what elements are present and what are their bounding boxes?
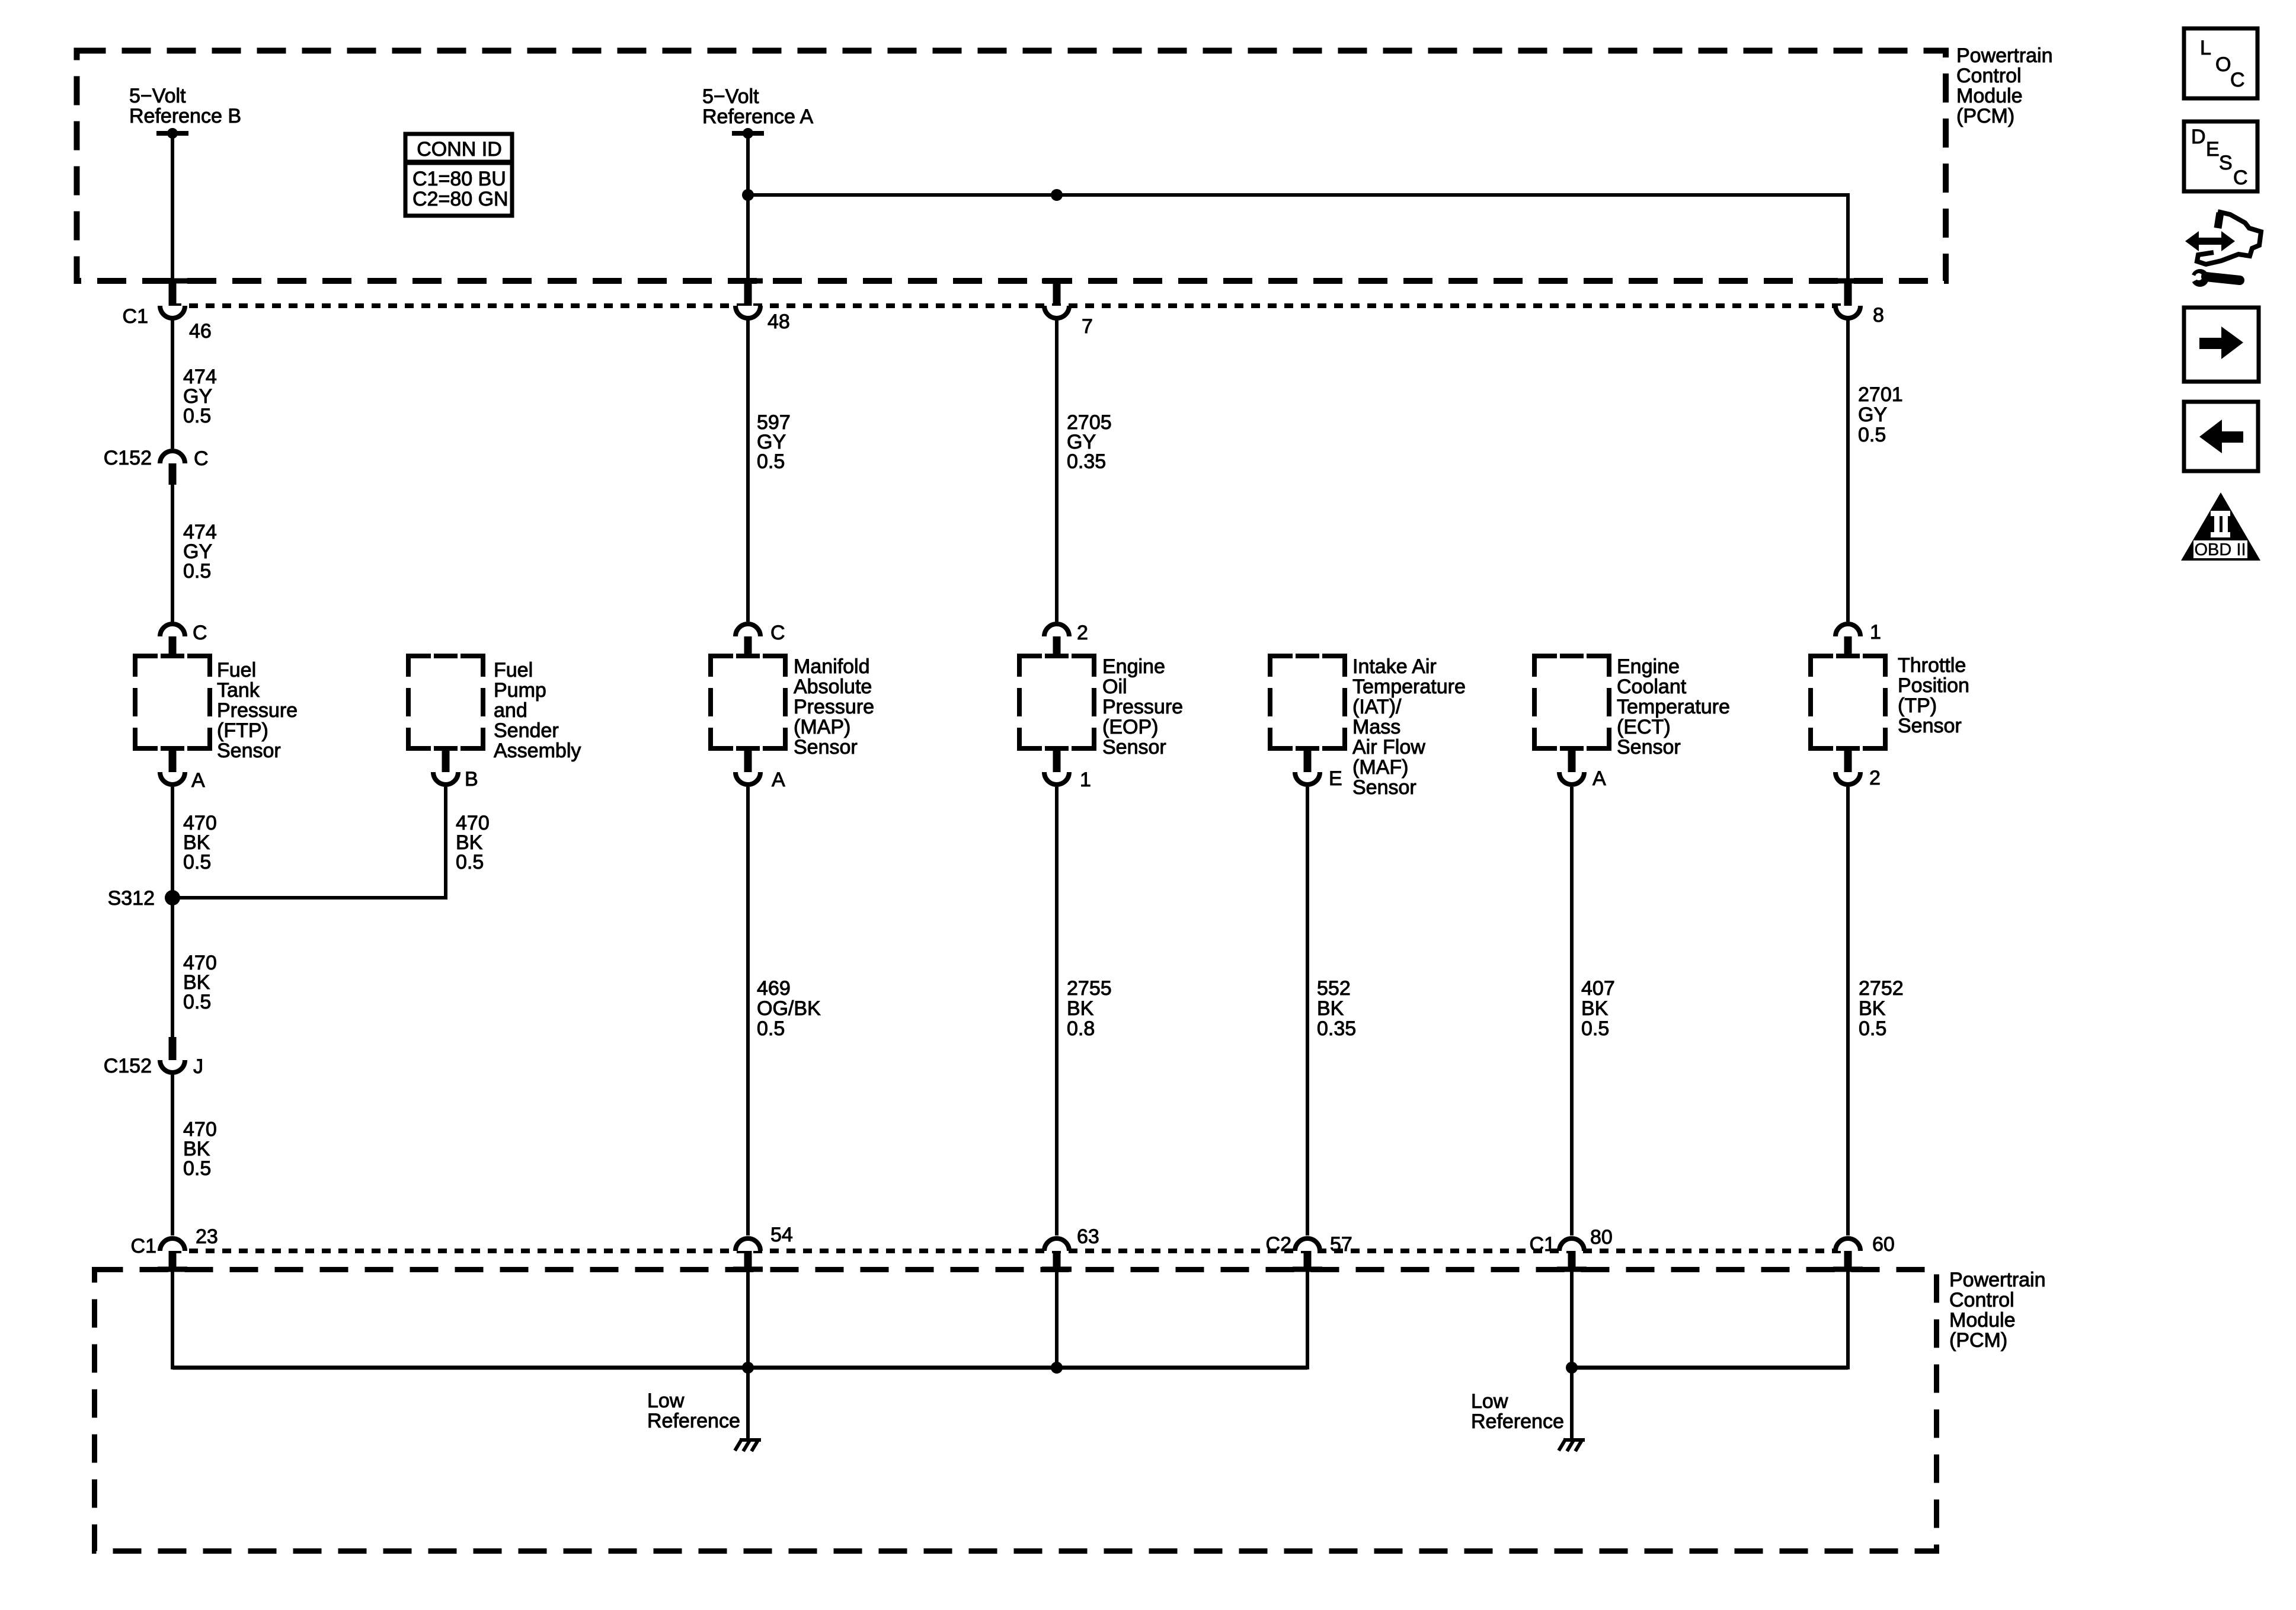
wire 80 to ground bbox=[1570, 1368, 1574, 1439]
svg-text:E: E bbox=[2206, 138, 2220, 161]
IAT MAF sensor box bbox=[1270, 654, 1345, 751]
svg-text:Reference: Reference bbox=[1471, 1410, 1564, 1433]
svg-text:Sensor: Sensor bbox=[1352, 776, 1416, 799]
ground (right chassis) bbox=[1559, 1439, 1585, 1451]
terminal 5V ref B bbox=[156, 128, 188, 139]
wire 2701 GY bbox=[1846, 318, 1850, 622]
svg-text:Throttle: Throttle bbox=[1898, 654, 1966, 677]
TP sensor top pin 1 bbox=[1835, 621, 1881, 658]
svg-text:Mass: Mass bbox=[1352, 716, 1400, 738]
pin 23 connector C1 bbox=[131, 1225, 218, 1272]
svg-text:Sensor: Sensor bbox=[794, 736, 858, 758]
wire 597 GY bbox=[746, 318, 750, 622]
svg-text:0.35: 0.35 bbox=[1317, 1017, 1356, 1040]
svg-text:D: D bbox=[2191, 126, 2206, 148]
label C1 top bbox=[123, 305, 148, 328]
svg-text:B: B bbox=[465, 768, 478, 790]
wire pin63 to bus bbox=[1055, 1269, 1059, 1368]
svg-text:0.5: 0.5 bbox=[456, 851, 484, 873]
wire 552 BK bbox=[1306, 787, 1309, 1235]
EOP sensor label bbox=[1102, 655, 1183, 758]
svg-text:(ECT): (ECT) bbox=[1617, 716, 1671, 738]
svg-text:(TP): (TP) bbox=[1898, 694, 1937, 717]
label Low Reference (right) bbox=[1471, 1390, 1564, 1433]
svg-text:63: 63 bbox=[1077, 1225, 1099, 1248]
wire 469 OG/BK bbox=[746, 787, 750, 1235]
wire 5V ref B vertical bbox=[171, 133, 174, 281]
wire label 2701 GY 0.5 bbox=[1858, 383, 1903, 446]
wire label 470 BK 0.5 (pump) bbox=[456, 812, 490, 873]
svg-text:Absolute: Absolute bbox=[794, 676, 872, 698]
svg-text:C: C bbox=[2230, 69, 2245, 91]
svg-text:C152: C152 bbox=[104, 1055, 152, 1077]
icon OBD II triangle bbox=[2181, 492, 2260, 561]
svg-text:Pressure: Pressure bbox=[794, 696, 874, 718]
wire label 470 BK 0.5 (FTP) bbox=[183, 812, 217, 873]
svg-text:8: 8 bbox=[1873, 304, 1884, 327]
svg-text:1: 1 bbox=[1870, 621, 1881, 644]
svg-text:2701: 2701 bbox=[1858, 383, 1903, 406]
svg-text:Reference: Reference bbox=[647, 1410, 740, 1432]
junction dot 54-bus bbox=[742, 1362, 754, 1374]
icon LOC box bbox=[2184, 28, 2257, 98]
svg-text:Pressure: Pressure bbox=[1102, 696, 1183, 718]
svg-text:5−Volt: 5−Volt bbox=[702, 85, 759, 108]
svg-text:Sensor: Sensor bbox=[1898, 715, 1962, 737]
wire label 2752 BK 0.5 bbox=[1859, 977, 1904, 1040]
svg-text:C1: C1 bbox=[1530, 1233, 1555, 1256]
svg-text:Sensor: Sensor bbox=[1617, 736, 1681, 758]
wire 470 BK below S312 bbox=[171, 898, 174, 1037]
svg-text:Low: Low bbox=[647, 1390, 685, 1412]
wire pin60 to bus bbox=[1846, 1269, 1850, 1369]
MAP sensor top pin C bbox=[736, 622, 785, 658]
wire 474 GY segment 2 bbox=[171, 485, 174, 622]
svg-text:Control: Control bbox=[1949, 1289, 2014, 1311]
PCM bottom label bbox=[1949, 1269, 2046, 1352]
svg-text:Sender: Sender bbox=[494, 719, 559, 742]
wire low-ref bus right bbox=[1572, 1366, 1848, 1370]
TP sensor box bbox=[1811, 654, 1885, 751]
svg-text:0.5: 0.5 bbox=[183, 560, 211, 582]
junction dot at 7 drop bbox=[1051, 189, 1063, 201]
svg-text:0.5: 0.5 bbox=[1858, 424, 1886, 446]
junction dot 80-bus bbox=[1566, 1362, 1578, 1374]
svg-text:469: 469 bbox=[757, 977, 791, 1000]
wire 2705 GY bbox=[1055, 318, 1059, 622]
pin 46 connector C1 bbox=[158, 279, 212, 343]
connector line C1 (top, dotted) bbox=[172, 303, 1848, 308]
wire pin80 to bus bbox=[1570, 1269, 1574, 1368]
svg-text:BK: BK bbox=[1859, 997, 1886, 1020]
svg-text:C: C bbox=[770, 622, 785, 644]
svg-text:Sensor: Sensor bbox=[217, 740, 281, 762]
FTP sensor bottom pin A bbox=[160, 748, 205, 792]
net label 5-Volt Reference A bbox=[702, 85, 813, 128]
connector line C1 (bottom, dotted) bbox=[172, 1249, 1848, 1253]
wire label 2705 GY 0.35 bbox=[1067, 411, 1112, 473]
svg-text:Temperature: Temperature bbox=[1352, 676, 1466, 698]
svg-text:Reference A: Reference A bbox=[702, 105, 813, 128]
svg-text:Pump: Pump bbox=[494, 679, 546, 702]
TP sensor bottom pin 2 bbox=[1835, 748, 1881, 789]
wire label 470 BK 0.5 (low) bbox=[183, 1118, 217, 1180]
svg-text:2752: 2752 bbox=[1859, 977, 1904, 1000]
connector C152 pin C bbox=[104, 447, 209, 485]
svg-text:Powertrain: Powertrain bbox=[1956, 44, 2053, 67]
wire 2752 BK bbox=[1846, 787, 1850, 1235]
svg-text:57: 57 bbox=[1330, 1233, 1352, 1256]
svg-text:48: 48 bbox=[768, 311, 790, 333]
svg-text:J: J bbox=[193, 1055, 203, 1078]
icon left-arrow box bbox=[2184, 402, 2258, 471]
svg-text:Module: Module bbox=[1949, 1309, 2016, 1331]
MAP sensor bottom pin A bbox=[736, 748, 785, 791]
svg-text:Oil: Oil bbox=[1102, 676, 1127, 698]
splice S312 bbox=[108, 887, 180, 910]
svg-text:54: 54 bbox=[770, 1224, 793, 1246]
wire label 597 GY 0.5 bbox=[757, 411, 791, 473]
svg-text:Module: Module bbox=[1956, 85, 2023, 107]
ECT sensor bottom pin A bbox=[1559, 748, 1606, 790]
svg-text:Position: Position bbox=[1898, 674, 1969, 697]
pin 8 connector C1 bbox=[1833, 279, 1884, 327]
svg-text:0.5: 0.5 bbox=[183, 991, 211, 1013]
Fuel Pump box bbox=[408, 654, 483, 751]
svg-text:Coolant: Coolant bbox=[1617, 676, 1687, 698]
PCM top module dashed box bbox=[77, 51, 1946, 281]
svg-text:552: 552 bbox=[1317, 977, 1351, 1000]
svg-text:0.5: 0.5 bbox=[757, 450, 785, 473]
wire 2755 BK bbox=[1055, 787, 1059, 1235]
svg-text:7: 7 bbox=[1082, 315, 1093, 338]
svg-text:BK: BK bbox=[1067, 997, 1094, 1020]
ECT sensor label bbox=[1617, 655, 1730, 758]
svg-text:0.5: 0.5 bbox=[1581, 1017, 1609, 1040]
svg-text:(PCM): (PCM) bbox=[1949, 1329, 2007, 1352]
Fuel Pump bottom pin B bbox=[433, 748, 478, 790]
wire 474 GY segment 1 bbox=[171, 318, 174, 449]
svg-text:0.5: 0.5 bbox=[183, 851, 211, 873]
svg-text:(PCM): (PCM) bbox=[1956, 105, 2014, 127]
CONN ID table bbox=[404, 134, 514, 216]
svg-text:Reference B: Reference B bbox=[129, 105, 241, 127]
IAT sensor bottom pin E bbox=[1295, 748, 1342, 790]
EOP sensor top pin 2 bbox=[1044, 622, 1088, 658]
svg-text:CONN ID: CONN ID bbox=[417, 138, 502, 161]
EOP sensor box bbox=[1019, 654, 1094, 751]
icon right-arrow box bbox=[2184, 308, 2259, 382]
svg-text:Low: Low bbox=[1471, 1390, 1508, 1413]
svg-text:Temperature: Temperature bbox=[1617, 696, 1730, 718]
svg-text:2: 2 bbox=[1077, 622, 1088, 644]
svg-text:L: L bbox=[2200, 37, 2211, 59]
svg-text:2755: 2755 bbox=[1067, 977, 1112, 1000]
svg-text:407: 407 bbox=[1581, 977, 1615, 1000]
svg-text:0.35: 0.35 bbox=[1067, 450, 1106, 473]
svg-text:Engine: Engine bbox=[1617, 655, 1680, 678]
svg-text:0.5: 0.5 bbox=[183, 405, 211, 427]
pin 63 connector C1 bbox=[1042, 1225, 1099, 1272]
svg-text:C: C bbox=[2233, 167, 2248, 189]
wire label 469 OG/BK 0.5 bbox=[757, 977, 821, 1040]
wire label 474 GY 0.5 (1) bbox=[183, 366, 217, 427]
wire label 552 BK 0.35 bbox=[1317, 977, 1356, 1040]
wire 407 BK bbox=[1570, 787, 1574, 1235]
IAT MAF sensor label bbox=[1352, 655, 1466, 799]
svg-text:C: C bbox=[194, 447, 209, 470]
wire low-ref bus left bbox=[172, 1366, 1307, 1370]
svg-text:OBD II: OBD II bbox=[2194, 540, 2246, 559]
wire label 470 BK 0.5 (mid) bbox=[183, 952, 217, 1013]
wire 5V ref A horizontal bus bbox=[748, 193, 1848, 281]
svg-text:Air Flow: Air Flow bbox=[1352, 736, 1425, 758]
svg-text:C1: C1 bbox=[131, 1235, 156, 1257]
svg-text:Intake Air: Intake Air bbox=[1352, 655, 1437, 678]
svg-text:5−Volt: 5−Volt bbox=[129, 85, 186, 107]
svg-text:Pressure: Pressure bbox=[217, 699, 298, 722]
wire pin54 to bus bbox=[746, 1269, 750, 1368]
svg-text:C2: C2 bbox=[1266, 1233, 1291, 1256]
connector C152 pin J bbox=[104, 1037, 203, 1078]
svg-text:C1: C1 bbox=[123, 305, 148, 328]
junction dot at 48 drop bbox=[742, 189, 754, 201]
label Low Reference (left) bbox=[647, 1390, 740, 1432]
pin 54 connector C1 bbox=[733, 1224, 793, 1272]
svg-text:C1=80 BU: C1=80 BU bbox=[412, 168, 506, 190]
wire 54 to ground bbox=[746, 1368, 750, 1439]
wire label 474 GY 0.5 (2) bbox=[183, 521, 217, 582]
wire pin23 to bus bbox=[171, 1269, 174, 1369]
svg-text:GY: GY bbox=[1858, 404, 1887, 426]
svg-text:C152: C152 bbox=[104, 447, 152, 469]
MAP sensor label bbox=[794, 655, 874, 758]
svg-text:60: 60 bbox=[1872, 1233, 1895, 1256]
wire label 2755 BK 0.8 bbox=[1067, 977, 1112, 1040]
svg-text:S: S bbox=[2219, 152, 2233, 174]
PCM bottom module dashed box bbox=[95, 1270, 1937, 1551]
svg-text:Assembly: Assembly bbox=[494, 740, 581, 762]
icon DESC box bbox=[2184, 121, 2257, 191]
svg-text:A: A bbox=[1593, 767, 1606, 790]
svg-text:Fuel: Fuel bbox=[494, 659, 533, 681]
svg-text:Control: Control bbox=[1956, 65, 2022, 87]
ECT sensor box bbox=[1534, 654, 1609, 751]
net label 5-Volt Reference B bbox=[129, 85, 241, 127]
svg-text:and: and bbox=[494, 699, 527, 722]
svg-text:C: C bbox=[193, 622, 207, 644]
svg-text:(MAP): (MAP) bbox=[794, 716, 850, 738]
FTP sensor label bbox=[217, 659, 298, 762]
svg-text:Manifold: Manifold bbox=[794, 655, 870, 678]
svg-text:BK: BK bbox=[1317, 997, 1344, 1020]
EOP sensor bottom pin 1 bbox=[1044, 748, 1091, 791]
wire 470 BK pump bbox=[444, 787, 447, 900]
svg-text:(MAF): (MAF) bbox=[1352, 756, 1408, 779]
svg-text:80: 80 bbox=[1590, 1226, 1613, 1249]
PCM top label bbox=[1956, 44, 2053, 127]
svg-text:C2=80 GN: C2=80 GN bbox=[412, 188, 509, 210]
MAP sensor box bbox=[711, 654, 785, 751]
wire 5V ref A vertical bbox=[746, 133, 750, 281]
svg-text:0.5: 0.5 bbox=[1859, 1017, 1886, 1040]
svg-text:E: E bbox=[1329, 767, 1342, 790]
svg-text:Fuel: Fuel bbox=[217, 659, 256, 681]
svg-text:OG/BK: OG/BK bbox=[757, 997, 821, 1020]
svg-text:(FTP): (FTP) bbox=[217, 719, 268, 742]
svg-text:1: 1 bbox=[1080, 769, 1091, 791]
svg-text:BK: BK bbox=[1581, 997, 1609, 1020]
pin 7 connector C1 bbox=[1042, 279, 1093, 338]
wire pin57 to bus bbox=[1306, 1269, 1309, 1369]
terminal 5V ref A bbox=[732, 128, 764, 139]
wire S312 horizontal bbox=[172, 896, 446, 900]
TP sensor label bbox=[1898, 654, 1969, 737]
svg-text:O: O bbox=[2215, 53, 2231, 76]
FTP sensor top pin C bbox=[160, 622, 207, 658]
svg-text:46: 46 bbox=[189, 320, 212, 343]
svg-text:0.5: 0.5 bbox=[757, 1017, 785, 1040]
icon harness/wrench bbox=[2185, 212, 2261, 287]
pin 80 connector C1 bbox=[1530, 1226, 1613, 1272]
svg-text:Powertrain: Powertrain bbox=[1949, 1269, 2046, 1291]
pin 57 connector C2 bbox=[1266, 1233, 1352, 1272]
wire label 407 BK 0.5 bbox=[1581, 977, 1615, 1040]
svg-text:Sensor: Sensor bbox=[1102, 736, 1166, 758]
svg-text:(EOP): (EOP) bbox=[1102, 716, 1158, 738]
svg-text:Engine: Engine bbox=[1102, 655, 1165, 678]
wire 470 BK segment 3 bbox=[171, 1075, 174, 1235]
Fuel Pump label bbox=[494, 659, 581, 762]
svg-text:Tank: Tank bbox=[217, 679, 260, 702]
wire 470 BK from FTP bbox=[171, 787, 174, 898]
junction dot 63-bus bbox=[1051, 1362, 1063, 1374]
pin 48 connector C1 bbox=[733, 279, 790, 333]
svg-text:A: A bbox=[772, 769, 785, 791]
svg-text:0.5: 0.5 bbox=[183, 1157, 211, 1180]
svg-text:A: A bbox=[191, 769, 205, 792]
svg-text:2: 2 bbox=[1869, 767, 1881, 789]
svg-text:23: 23 bbox=[196, 1225, 218, 1248]
FTP sensor box bbox=[135, 654, 210, 751]
pin 60 connector C1 bbox=[1833, 1233, 1895, 1272]
svg-text:0.8: 0.8 bbox=[1067, 1017, 1095, 1040]
ground (left chassis) bbox=[735, 1439, 761, 1451]
svg-text:(IAT)/: (IAT)/ bbox=[1352, 696, 1402, 718]
svg-text:S312: S312 bbox=[108, 887, 155, 910]
